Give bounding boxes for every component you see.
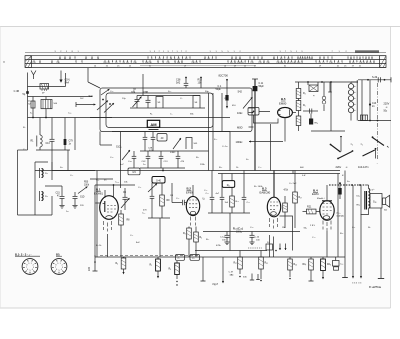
wire rv1 xyxy=(337,174,339,258)
svg-text:100k₄: 100k₄ xyxy=(236,232,242,234)
wire gang stub143 xyxy=(142,74,144,96)
AM block xyxy=(147,120,159,127)
comp pair boxes xyxy=(333,261,340,267)
filter FL1 xyxy=(40,84,49,89)
svg-text:R21: R21 xyxy=(307,205,312,208)
wire OPT HT xyxy=(361,209,369,215)
chassis dash line xyxy=(377,83,379,160)
svg-text:S₄₃: S₄₃ xyxy=(214,139,217,141)
coil S0 staple xyxy=(186,138,192,150)
svg-text:65mA ↗: 65mA ↗ xyxy=(317,197,325,200)
svg-text:5: 5 xyxy=(29,270,30,272)
svg-text:S-40: S-40 xyxy=(156,181,162,183)
coil L2a xyxy=(42,169,44,178)
selector 220 dot xyxy=(340,136,342,138)
rv5 end bar xyxy=(378,278,384,280)
wire rv2 xyxy=(344,171,346,278)
cans bottom pair xyxy=(176,255,185,261)
svg-text:6: 6 xyxy=(56,269,57,271)
coil S8 staple xyxy=(193,96,200,109)
node a1 xyxy=(32,117,34,119)
tube B2 bottom pins xyxy=(191,217,196,226)
svg-text:C₄₈: C₄₈ xyxy=(312,237,315,239)
wire mains v2 xyxy=(369,80,371,121)
capacitor C22 xyxy=(150,195,155,197)
tube B3 cathode oval xyxy=(271,212,277,216)
wire if bus3 xyxy=(140,150,209,152)
svg-text:C₄₅: C₄₅ xyxy=(258,167,261,169)
svg-text:C84: C84 xyxy=(131,92,136,94)
speaker xyxy=(383,198,386,205)
node bus1 xyxy=(162,170,164,172)
svg-text:R₁₃ (C₁₅): R₁₃ (C₁₅) xyxy=(233,228,243,231)
resistor R8 xyxy=(120,210,122,214)
wire gang link xyxy=(137,95,200,97)
wire if drop xyxy=(162,168,164,171)
capacitor C42 xyxy=(147,151,149,156)
svg-text:56µF: 56µF xyxy=(259,86,265,88)
selector tick xyxy=(387,146,389,148)
bottom bus dashes xyxy=(100,254,200,256)
svg-text:1M: 1M xyxy=(170,195,173,197)
OPT core xyxy=(365,191,367,210)
resistor R9 xyxy=(161,183,163,195)
trimmer if1 xyxy=(148,184,157,193)
wire pickup right xyxy=(52,170,95,172)
svg-text:C79: C79 xyxy=(69,141,74,143)
capacitor B2 grid xyxy=(178,202,182,204)
wire eye feed xyxy=(248,107,255,109)
tube B2 grid dashes xyxy=(189,200,197,208)
resistor R21 xyxy=(307,209,317,214)
wire left mid v xyxy=(67,150,69,171)
resistor R18 xyxy=(231,174,233,197)
svg-text:∘: ∘ xyxy=(377,163,378,165)
svg-text:Uₓ: Uₓ xyxy=(203,198,206,201)
dial pointer arrow xyxy=(60,71,62,80)
svg-text:C₃₃: C₃₃ xyxy=(247,202,250,204)
wire pickup tap xyxy=(45,185,62,187)
lamp pair xyxy=(322,96,326,100)
svg-text:C2B: C2B xyxy=(148,148,153,150)
svg-text:R₁: R₁ xyxy=(150,114,153,116)
svg-text:R₄: R₄ xyxy=(303,93,306,95)
svg-text:C₅₁: C₅₁ xyxy=(352,227,355,229)
svg-text:S₉ₐ: S₉ₐ xyxy=(168,91,171,93)
svg-text:C.11: C.11 xyxy=(259,83,264,85)
tube B3 envelope xyxy=(267,197,280,217)
svg-text:C8B: C8B xyxy=(144,92,149,94)
selector 110 arm2 xyxy=(363,150,375,156)
svg-text:EF89: EF89 xyxy=(186,191,193,195)
node dash dots xyxy=(351,184,353,186)
wire inner loop right pair xyxy=(208,93,210,171)
wire antenna right drop xyxy=(65,73,67,87)
wire eye bottom drop xyxy=(284,118,286,142)
wire b3 ht xyxy=(292,171,294,174)
svg-text:110-127v: 110-127v xyxy=(358,165,369,169)
capacitor C12 gnd xyxy=(226,232,228,236)
svg-text:R₂₂: R₂₂ xyxy=(219,167,222,169)
svg-text:B5.: B5. xyxy=(56,252,60,256)
selector 110 dot xyxy=(372,136,374,138)
svg-text:C₃₀: C₃₀ xyxy=(204,190,207,192)
wire antenna bus xyxy=(28,86,66,88)
svg-text:C₃₈: C₃₈ xyxy=(250,227,253,229)
tube B1 bottom pins xyxy=(104,221,112,232)
svg-text:B ⅷ7861⁄ₐ: B ⅷ7861⁄ₐ xyxy=(369,286,381,289)
switch S1B xyxy=(173,138,181,149)
svg-text:S₇: S₇ xyxy=(30,113,32,115)
node B1 top xyxy=(113,184,115,186)
tube B4 cathode oval xyxy=(323,216,329,220)
svg-text:4: 4 xyxy=(32,269,33,271)
wire b4 drop xyxy=(326,231,328,257)
wire drop2 xyxy=(51,118,53,137)
bottom bus xyxy=(95,256,345,258)
wire eye col xyxy=(270,124,272,171)
node b4 xyxy=(339,182,341,184)
svg-text:C.24: C.24 xyxy=(255,237,260,239)
resistor R40 xyxy=(298,82,300,88)
svg-text:AM: AM xyxy=(150,122,157,127)
wire b2b3 bottom xyxy=(208,212,250,214)
svg-text:8: 8 xyxy=(55,265,56,267)
capacitor C1B xyxy=(133,151,135,156)
svg-text:EL84: EL84 xyxy=(312,192,319,196)
resistor Rb1 bold xyxy=(157,257,159,259)
svg-text:100: 100 xyxy=(198,81,203,84)
svg-text:ECH81: ECH81 xyxy=(94,192,103,196)
wire drop1 xyxy=(39,118,41,136)
wire bus left riser xyxy=(96,171,98,258)
svg-text:S1D: S1D xyxy=(80,197,85,199)
wire opt right drop xyxy=(380,208,382,278)
capacitor C31A xyxy=(211,171,213,198)
tube B4 top dashes xyxy=(323,204,332,215)
resistor Rb3 xyxy=(239,251,241,258)
svg-text:C13: C13 xyxy=(46,143,51,145)
coil S9 staple xyxy=(156,97,163,109)
svg-text:S1C₃: S1C₃ xyxy=(116,147,121,149)
wire drop L60 xyxy=(45,109,47,118)
svg-text:R2₈: R2₈ xyxy=(327,264,331,266)
antenna Y xyxy=(31,71,36,80)
svg-text:5A2: 5A2 xyxy=(176,81,181,84)
svg-text:C₅₉: C₅₉ xyxy=(96,180,99,182)
tuning indicator box xyxy=(248,108,259,116)
svg-text:C₆₅: C₆₅ xyxy=(68,113,71,115)
capacitor C2B xyxy=(152,132,154,138)
wire gang top entry xyxy=(87,68,89,82)
svg-text:R50: R50 xyxy=(84,182,89,184)
svg-text:C₁₁ 2n2: C₁₁ 2n2 xyxy=(289,183,297,185)
svg-text:C.37: C.37 xyxy=(229,272,234,274)
capacitor C1 50uF xyxy=(226,80,228,95)
svg-text:R3₀: R3₀ xyxy=(357,205,361,207)
resistor Rb5 xyxy=(289,257,291,259)
wire mid v2 xyxy=(229,132,231,171)
tube B2 envelope xyxy=(186,196,199,215)
node C48 xyxy=(26,91,29,94)
capacitor C8B xyxy=(147,96,149,101)
svg-text:C₅₆: C₅₆ xyxy=(340,264,343,266)
wire mains bottom xyxy=(358,120,391,122)
svg-text:S₁₆: S₁₆ xyxy=(347,181,350,183)
capacitor C11 56u xyxy=(253,86,258,91)
ground g2 xyxy=(72,205,77,207)
svg-text:S¹⁷: S¹⁷ xyxy=(372,189,375,192)
svg-text:5: 5 xyxy=(58,270,59,272)
svg-text:R₄: R₄ xyxy=(200,237,203,239)
tube B2 cathode oval xyxy=(190,211,195,214)
wire front-end row xyxy=(28,96,93,98)
wire mid v1 xyxy=(221,93,223,132)
svg-text:S-49: S-49 xyxy=(372,76,378,79)
wire mains top xyxy=(358,79,391,81)
svg-text:9: 9 xyxy=(28,263,29,265)
svg-text:1P: 1P xyxy=(133,90,136,92)
tube B4 top bar xyxy=(322,200,332,202)
svg-text:C₁₀ₐ: C₁₀ₐ xyxy=(115,182,119,184)
capacitor C62 xyxy=(32,97,34,102)
svg-text:1M: 1M xyxy=(282,227,285,229)
wire r chain xyxy=(298,111,300,117)
wire drop C62 xyxy=(32,108,34,118)
capacitor C32 xyxy=(221,174,223,198)
svg-text:(C₅₀: (C₅₀ xyxy=(337,213,341,215)
wire left rail xyxy=(27,87,29,151)
selector 110 stem xyxy=(375,150,377,159)
svg-text:R₀: R₀ xyxy=(23,127,26,129)
trimmer C84 xyxy=(136,96,138,100)
wire drop to main bus xyxy=(51,150,53,171)
tube B1 anode bar xyxy=(104,201,106,212)
svg-text:0.4mA): 0.4mA) xyxy=(337,214,344,217)
trimmer C9 xyxy=(124,188,126,197)
dial scale row2 ticks xyxy=(33,60,35,62)
wire ht h131 xyxy=(311,130,345,132)
svg-text:R₅: R₅ xyxy=(303,105,306,107)
capacitor C38 xyxy=(185,78,187,83)
svg-text:7: 7 xyxy=(55,267,56,269)
svg-text:R₁₉: R₁₉ xyxy=(206,239,209,241)
wire gang left drop xyxy=(99,132,101,146)
svg-text:R₂₇: R₂₇ xyxy=(234,263,238,265)
svg-text:R4₇: R4₇ xyxy=(303,264,307,266)
svg-text:×₂: ×₂ xyxy=(351,143,353,146)
svg-text:EM80: EM80 xyxy=(279,101,287,105)
bus box C4 xyxy=(128,168,140,175)
shield loop outer xyxy=(100,88,252,132)
resistor R41 xyxy=(298,99,300,101)
capacitor C33 xyxy=(243,171,245,198)
svg-text:R₁₇ 100k: R₁₇ 100k xyxy=(254,186,263,188)
svg-text:2 8 5: 2 8 5 xyxy=(310,225,316,227)
svg-text:≃: ≃ xyxy=(346,166,348,169)
svg-text:50µF: 50µF xyxy=(216,88,222,91)
wire bv2 xyxy=(222,257,224,281)
wire B3 right pin xyxy=(280,216,293,251)
wire B2 grid feed xyxy=(172,202,178,204)
wire r16 drop xyxy=(200,78,202,88)
wire b1 left drop xyxy=(94,185,96,203)
pickup box xyxy=(35,162,52,215)
tube B1 envelope xyxy=(100,196,119,220)
wire if bus4 xyxy=(140,167,185,169)
tube B3 feed xyxy=(273,171,275,198)
wire antenna left drop xyxy=(27,73,29,87)
resistor Rb7 bold xyxy=(322,257,324,259)
coil L2b xyxy=(42,192,44,201)
tube B1 cathode xyxy=(106,216,113,218)
wire b1 stub179 xyxy=(90,178,113,180)
rv4 arrow xyxy=(360,276,362,279)
wire HT rail top xyxy=(254,79,256,171)
svg-text:1: 1 xyxy=(60,263,61,265)
node m1 xyxy=(367,79,369,81)
capacitor C16 xyxy=(74,192,76,196)
svg-text:C₁₀: C₁₀ xyxy=(142,213,145,215)
selector 220 arm1 xyxy=(331,145,341,153)
svg-text:R₂₅: R₂₅ xyxy=(340,233,343,235)
svg-text:R₆ 1k: R₆ 1k xyxy=(96,245,102,247)
svg-text:220: 220 xyxy=(88,266,91,271)
capacitor C15 xyxy=(61,186,63,196)
svg-text:82C700: 82C700 xyxy=(219,74,229,78)
wire heater top xyxy=(350,82,352,83)
wire B1 anode rail xyxy=(95,184,135,186)
wire if1 left xyxy=(151,183,153,196)
node c38 xyxy=(185,77,187,79)
resistor R42 xyxy=(296,116,301,126)
svg-text:C₆ 1n: C₆ 1n xyxy=(222,146,228,148)
tube B2 top wire xyxy=(192,194,194,197)
wire gang bottom link xyxy=(130,107,205,109)
svg-text:220v: 220v xyxy=(336,165,342,169)
mains end bar xyxy=(390,77,392,82)
svg-text:R₃₅: R₃₅ xyxy=(265,263,269,265)
svg-text:R₁₈: R₁₈ xyxy=(236,201,239,203)
svg-text:C₃₁: C₃₁ xyxy=(206,193,209,195)
mid bus b2 xyxy=(195,250,267,252)
svg-text:S1B2: S1B2 xyxy=(170,152,176,154)
svg-text:R₂₄: R₂₄ xyxy=(267,242,270,244)
svg-text:C.12: C.12 xyxy=(220,237,225,239)
magic eye B5 xyxy=(278,107,293,117)
svg-text:6: 6 xyxy=(27,269,28,271)
svg-text:R₂₆: R₂₆ xyxy=(294,264,298,266)
tube B4 feed xyxy=(326,185,328,200)
svg-text:R₁₇: R₁₇ xyxy=(299,197,302,199)
wire lamp drop xyxy=(323,105,325,111)
dropper RD xyxy=(307,82,309,85)
capacitor C13a xyxy=(160,151,162,156)
resistor R17 xyxy=(294,171,296,193)
svg-text:9: 9 xyxy=(57,263,58,265)
tube B3 grid dashes xyxy=(270,202,278,210)
svg-text:C₆: C₆ xyxy=(23,149,26,151)
svg-text:R₁₁: R₁₁ xyxy=(196,157,199,159)
svg-text:C₂₉: C₂₉ xyxy=(130,235,133,237)
selector 220 dots xyxy=(330,144,332,146)
wire gang right drop xyxy=(120,132,122,189)
resistor B3 right xyxy=(284,196,286,203)
svg-text:3: 3 xyxy=(62,267,63,269)
node ht1 xyxy=(307,81,309,83)
svg-text:S₁₉: S₁₉ xyxy=(373,200,376,203)
coil L60 xyxy=(45,97,47,100)
resistor R6 bottom xyxy=(123,257,125,258)
svg-text:7: 7 xyxy=(26,267,27,269)
svg-text:×₁: ×₁ xyxy=(361,143,363,146)
coil L1 xyxy=(40,135,42,147)
svg-text:S4₅: S4₅ xyxy=(304,228,308,230)
svg-text:190kc: 190kc xyxy=(236,140,244,144)
magic eye pins xyxy=(278,110,281,112)
svg-text:C₉ₐ: C₉ₐ xyxy=(224,98,227,100)
wire rv4 xyxy=(360,185,362,276)
resistor Rb2 bold xyxy=(176,261,178,263)
wire left col2 xyxy=(74,118,76,151)
svg-text:M0D: M0D xyxy=(237,125,243,129)
svg-text:C15: C15 xyxy=(56,193,61,195)
node m2 xyxy=(369,103,371,105)
can 101 xyxy=(157,134,167,142)
capacitor C44 xyxy=(339,185,341,188)
socket diagram B5 xyxy=(51,259,67,275)
wire ht v331 xyxy=(330,82,332,131)
socket diagram B1-4 xyxy=(22,259,38,275)
svg-text:R₆: R₆ xyxy=(116,263,119,265)
resistor Rb4 xyxy=(260,251,262,258)
wire input gnd bus xyxy=(36,149,70,151)
svg-text:R₂: R₂ xyxy=(150,265,153,267)
wire b4 dashline xyxy=(329,184,366,186)
wire midbus b2 xyxy=(203,231,300,233)
svg-text:D4₉: D4₉ xyxy=(357,196,361,198)
wire heater right xyxy=(356,80,358,121)
tube B1 grid stub xyxy=(96,202,101,204)
wire if1 bottom xyxy=(148,217,170,219)
capacitor C2A xyxy=(144,132,146,138)
can S-40 xyxy=(152,177,165,184)
svg-text:4: 4 xyxy=(61,269,62,271)
tube B1 grid dashes xyxy=(107,206,116,213)
svg-text:R₁₅: R₁₅ xyxy=(227,184,231,187)
svg-text:C₁₉: C₁₉ xyxy=(70,175,73,177)
wire bv1 xyxy=(202,257,204,281)
capacitor C34 xyxy=(177,151,179,156)
wire mains v1 xyxy=(361,80,363,121)
svg-text:S₁ₐ: S₁ₐ xyxy=(60,167,63,169)
ground g1 xyxy=(59,205,64,207)
wire b3 drop xyxy=(269,235,271,257)
svg-text:1: 1 xyxy=(31,263,32,265)
shield loop inner xyxy=(106,93,213,128)
svg-text:EABC80: EABC80 xyxy=(260,191,271,195)
wire drop3 xyxy=(64,118,66,138)
wire if bus1 xyxy=(90,117,230,119)
volume pot bold xyxy=(222,181,234,188)
main bus AVC xyxy=(35,170,340,172)
pilot lamp box xyxy=(361,115,368,121)
svg-text:R₉: R₉ xyxy=(169,269,172,271)
tube B1 top wires xyxy=(104,190,106,198)
wire ht bus top xyxy=(295,81,358,83)
svg-text:C₇: C₇ xyxy=(178,258,181,260)
resistor Rb6 xyxy=(310,257,312,259)
